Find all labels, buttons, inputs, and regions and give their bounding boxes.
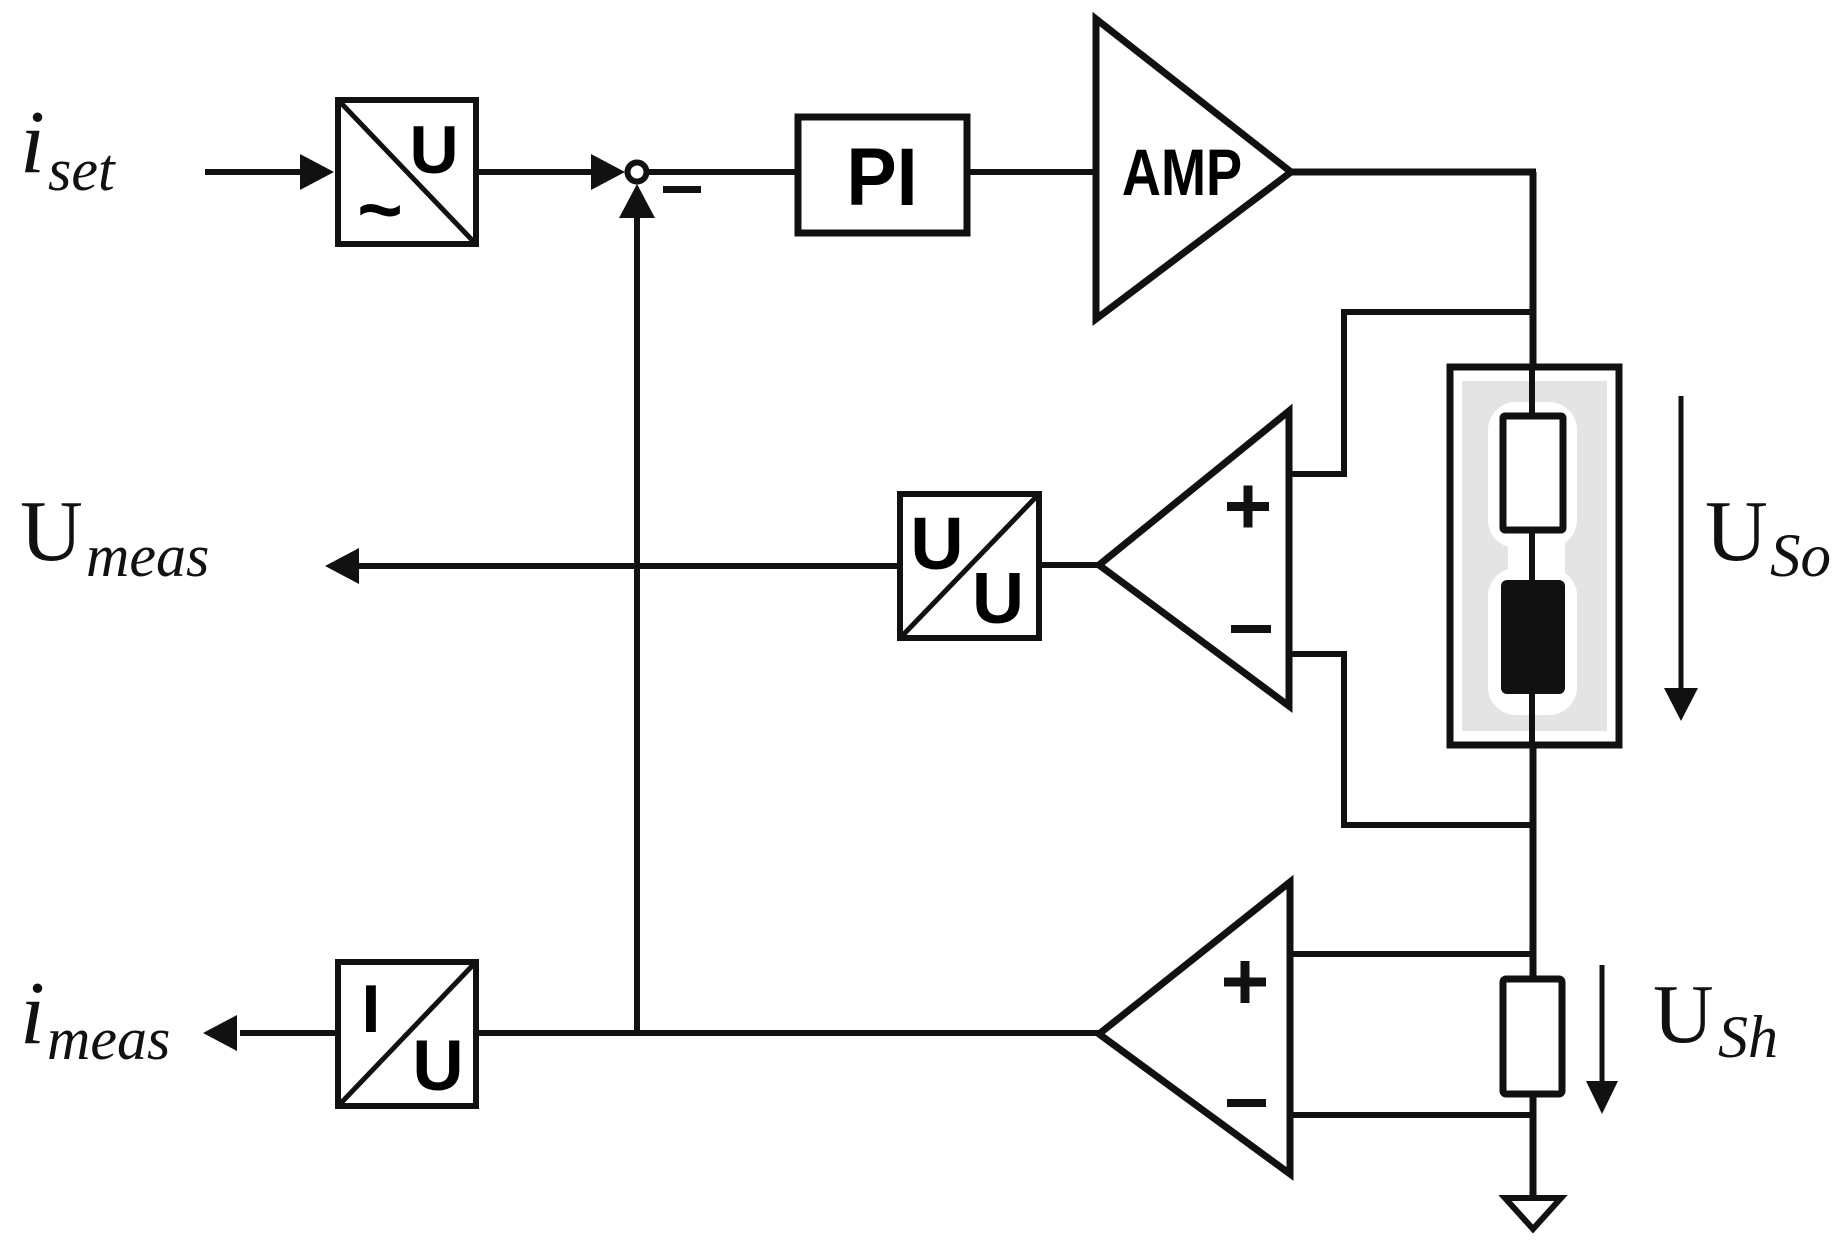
arrowhead into converter U1 [300,154,334,190]
converter U1 (~ to U DAC block) [338,100,476,253]
arrow U_Sh voltage direction [1600,965,1605,1081]
wire U4 output to I/U converter [476,1030,1103,1036]
svg-text:PI: PI [846,131,917,223]
wire feedback vertical to summing junction [634,218,640,1033]
arrowhead into summing junction [591,154,625,190]
converter U3 (U/U isolation block) [900,494,1039,639]
svg-text:set: set [48,137,116,203]
svg-text:i: i [20,964,45,1063]
wire through sensor [1529,367,1535,745]
op-amp U4 shunt current diff amplifier [1099,882,1290,1174]
resistor R_shunt [1503,979,1562,1094]
op-amp AMP power amplifier [1096,19,1291,319]
wire - input of shunt amp U4 [1290,1112,1536,1118]
svg-text:meas: meas [47,1006,170,1072]
svg-text:AMP: AMP [1122,135,1242,209]
wire U2 output to U/U converter [1036,562,1103,568]
sensor slot white cutout upper [1488,402,1577,548]
ground [1505,1198,1561,1229]
resistor sensing element (black) [1501,580,1565,694]
wire - branch of sense amp U2 to lower sensor node [1289,651,1347,657]
svg-text:I: I [362,971,381,1047]
sensor slot white cutout middle [1508,520,1565,600]
sensor slot white cutout lower [1488,568,1577,715]
node U_Sh label [1653,968,1778,1070]
wire main vertical middle segment [1530,745,1537,982]
node i_set label [20,93,116,203]
svg-text:Sh: Sh [1718,1004,1778,1070]
svg-text:U: U [910,502,963,585]
op-amp U2 sensor voltage diff amplifier [1099,411,1289,706]
summing junction node [628,163,647,182]
wire PI to AMP [967,169,1099,175]
converter U5 (I/U block) [338,962,476,1106]
node U_So label [1705,482,1831,590]
wire U1 to summing junction [476,169,594,175]
node U_meas label [20,482,209,589]
arrowhead U_meas [325,548,359,584]
wire U/U output to U_meas [358,563,900,569]
node i_meas label [20,964,170,1072]
svg-text:U: U [20,482,83,579]
PI controller block [798,117,967,233]
wire branch to + input of sense amp U2 [1344,309,1536,315]
resistor heater element (white) [1503,416,1563,530]
wire AMP output to main vertical [1291,169,1536,176]
arrow U_So voltage direction [1679,396,1684,690]
sensor assembly outer box [1450,367,1619,745]
svg-text:i: i [20,93,45,192]
svg-text:~: ~ [357,165,403,253]
wire main vertical upper segment [1530,172,1537,372]
svg-text:meas: meas [86,523,209,589]
svg-text:U: U [1705,482,1768,579]
wire main vertical lower segment [1530,1094,1537,1198]
svg-text:U: U [972,559,1024,639]
svg-text:U: U [412,1027,463,1106]
wire i_set input [205,169,318,175]
wire summing junction to PI [649,169,801,175]
wire + input of shunt amp U4 [1290,951,1536,957]
arrowhead feedback into summing junction [619,184,655,218]
arrowhead i_meas [203,1015,237,1051]
minus sign at summing junction [663,186,701,193]
svg-text:U: U [1653,968,1714,1061]
svg-text:So: So [1770,523,1831,590]
wire I/U to i_meas [240,1030,338,1036]
sensor substrate grey area [1462,381,1607,731]
svg-text:U: U [409,112,458,188]
